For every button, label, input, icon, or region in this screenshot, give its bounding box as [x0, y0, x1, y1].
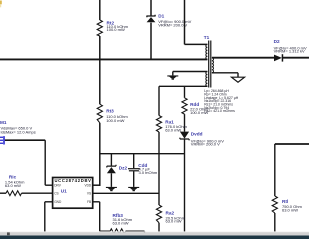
wire Rdd to Dvdd — [184, 114, 186, 132]
capacitor Cdd — [128, 163, 158, 175]
ground aux (signal ground) — [167, 75, 178, 79]
wire Rt2 to bus — [99, 36, 101, 59]
resistor Ra2 — [156, 205, 185, 224]
svg-text:VDD: VDD — [84, 183, 91, 187]
diode D1 — [146, 14, 191, 28]
wire Dz2 to ground — [110, 173, 112, 187]
svg-text:63.0 mW: 63.0 mW — [113, 221, 129, 226]
scrollbar track — [0, 231, 309, 235]
IC U1 UCC28742DBV — [53, 178, 93, 209]
wire FB pin down — [93, 202, 111, 231]
diode D2 — [274, 39, 307, 61]
resistor Ra1 — [156, 116, 187, 133]
svg-text:Ric: Ric — [9, 174, 17, 179]
wire aux winding top to ground — [173, 72, 208, 76]
svg-text:T1: T1 — [204, 35, 210, 40]
transistor M1 (gate, clipped at edge) — [0, 120, 36, 145]
svg-text:VRRM= 1.312 kV: VRRM= 1.312 kV — [274, 49, 305, 54]
resistor Rt3 — [97, 104, 128, 123]
svg-text:63.0 mW: 63.0 mW — [165, 127, 181, 132]
wire primary top from top edge — [185, 0, 208, 44]
svg-text:Rs2= 421.0 mOhms: Rs2= 421.0 mOhms — [204, 109, 235, 113]
wire aux winding bottom rail — [159, 85, 207, 87]
ground Dz2 (signal ground) — [106, 187, 117, 191]
svg-text:VRRM= 200.0 V: VRRM= 200.0 V — [158, 22, 187, 27]
wire DRV pin to gate — [5, 140, 53, 185]
svg-text:D1: D1 — [158, 14, 164, 19]
wire Rt3 down to VDD rail — [99, 123, 101, 186]
svg-text:63.0 mW: 63.0 mW — [282, 208, 298, 213]
wire aux bottom down to Rdd — [184, 86, 186, 98]
zener diode Dz2 — [107, 165, 128, 174]
svg-text:Dvdd: Dvdd — [191, 132, 203, 137]
wire VDD rail horizontal — [100, 153, 185, 155]
svg-text:DRV: DRV — [54, 183, 62, 187]
svg-text:Dz2: Dz2 — [119, 166, 128, 171]
svg-text:63.0 mW: 63.0 mW — [166, 219, 182, 224]
wire D1 vertical from top — [150, 0, 152, 17]
toolbar fragment top-left — [0, 1, 2, 8]
resistor Rt2 — [97, 20, 128, 36]
wire VS to divider node — [93, 192, 160, 194]
wire secondary output to D2 — [212, 57, 274, 59]
svg-text:U1: U1 — [61, 189, 67, 194]
wire Ra2 to bottom — [158, 223, 160, 232]
svg-text:VRRM= 200.0 V: VRRM= 200.0 V — [191, 142, 220, 147]
wire main input bus — [0, 58, 207, 60]
svg-text:CS: CS — [54, 191, 58, 195]
svg-text:3.0 mOhm: 3.0 mOhm — [139, 170, 158, 175]
svg-text:IdsMax= 12.0 Amps: IdsMax= 12.0 Amps — [1, 130, 36, 135]
wire secondary bottom to ground — [212, 73, 238, 77]
wire Dvdd down to bottom — [184, 139, 186, 232]
svg-text:VS: VS — [87, 191, 91, 195]
resistor Rdd — [182, 98, 209, 115]
wire aux rail down to Ra1 — [158, 86, 160, 115]
svg-text:UCC28742DBV: UCC28742DBV — [54, 178, 91, 183]
wire Cdd to ground — [133, 171, 135, 187]
wire bus to Rt3 — [99, 59, 101, 104]
wire GND pin down — [45, 202, 53, 232]
wire rail to Dz2 — [110, 154, 112, 166]
ground Cdd (signal ground) — [128, 187, 139, 191]
svg-text:100.0 mW: 100.0 mW — [190, 110, 208, 115]
diode Dvdd — [180, 132, 224, 147]
svg-text:FB: FB — [87, 200, 91, 204]
wire D2 to right edge — [283, 57, 309, 59]
svg-text:M1: M1 — [0, 120, 7, 125]
wire D1 to bus — [150, 23, 152, 60]
wire Rtl to bottom — [274, 213, 276, 232]
wire left vertical from top — [99, 0, 101, 20]
wire VDD pin stub — [93, 184, 101, 186]
ground secondary (power ground arrow) — [232, 77, 245, 82]
svg-text:GND: GND — [54, 200, 62, 204]
transformer T1 — [204, 35, 239, 113]
svg-text:63.0 mW: 63.0 mW — [5, 183, 21, 188]
wire rail to Cdd — [133, 154, 135, 169]
window bottom border — [0, 236, 309, 240]
resistor Rtl — [272, 196, 302, 213]
wire Ra1 to Ra2 (VS node) — [158, 132, 160, 205]
wire output return right side — [275, 144, 309, 196]
svg-text:100.0 mW: 100.0 mW — [106, 118, 124, 123]
svg-text:100.0 mW: 100.0 mW — [107, 27, 125, 32]
resistor Rfb3 — [110, 213, 145, 233]
resistor Ric on CS line — [0, 174, 53, 195]
svg-text:D2: D2 — [274, 39, 280, 44]
